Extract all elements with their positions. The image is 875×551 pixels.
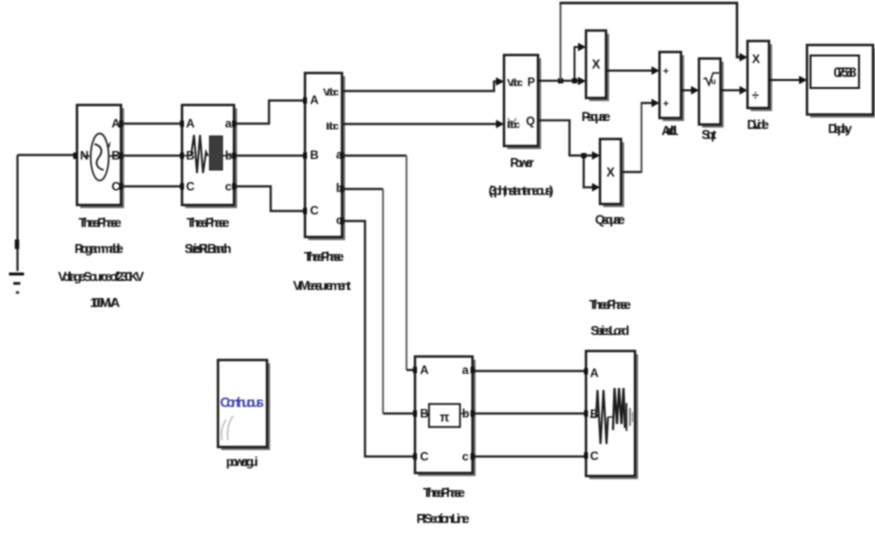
wire Q-square out up to Add1 lower input [621, 99, 660, 173]
svg-text:PI Section Line: PI Section Line [417, 511, 470, 526]
wire VI Vabc to Power Vabc [342, 82, 497, 92]
svg-text:Divide: Divide [747, 117, 769, 132]
svg-text:Add1: Add1 [662, 123, 679, 138]
svg-text:a: a [462, 363, 469, 377]
svg-text:Display: Display [828, 121, 853, 136]
wire PI c to Load C [475, 455, 585, 457]
power block U2: Power (3ph, Instantaneous) [504, 55, 540, 148]
wire VI a down to PI line A [342, 155, 407, 157]
powergui block [218, 360, 269, 449]
node J3 on Q wire [581, 153, 586, 158]
svg-text:π: π [440, 411, 450, 425]
svg-text:Three-Phase: Three-Phase [304, 249, 344, 264]
wire Divide to Display [769, 76, 807, 85]
svg-text:VI Measurement: VI Measurement [293, 278, 352, 293]
svg-text:A: A [310, 93, 319, 107]
multiplier U3: P-square [586, 31, 608, 100]
wire PI a to Load A [475, 370, 585, 372]
svg-text:Q-square: Q-square [595, 212, 625, 227]
svg-text:c: c [462, 450, 469, 464]
label: power block name [489, 155, 554, 198]
svg-text:Iabc: Iabc [326, 121, 339, 133]
voltage source U1: Three-Phase Programmable Voltage Source [73, 105, 123, 207]
wire P-square out to Add1 [606, 66, 660, 75]
svg-text:A: A [186, 117, 195, 131]
svg-text:Sqrt: Sqrt [702, 127, 718, 142]
adder U5: Add1 [660, 52, 683, 120]
label: RL branch name [185, 215, 232, 256]
svg-text:0.7538: 0.7538 [834, 65, 857, 80]
label: source name [58, 215, 144, 310]
svg-text:+: + [663, 67, 669, 78]
label: PI section line name [417, 485, 470, 526]
PI section line block Z2: Three-Phase PI Section Line [413, 357, 475, 475]
svg-text:Series Load: Series Load [591, 323, 630, 338]
wire source A to RL A [121, 122, 182, 124]
svg-text:÷: ÷ [752, 89, 759, 103]
wire RL a to VI A [236, 101, 303, 124]
wire RL c to VI C [236, 186, 303, 211]
svg-text:+: + [663, 99, 669, 110]
wire source B to RL B [121, 155, 182, 157]
svg-text:A: A [420, 363, 429, 377]
svg-text:C: C [420, 450, 429, 464]
RL branch Z1: Three-Phase Series RL Branch [180, 105, 236, 207]
svg-text:C: C [590, 449, 599, 463]
svg-text:Three-Phase: Three-Phase [589, 297, 631, 312]
svg-text:N: N [80, 149, 89, 163]
svg-text:powergui: powergui [226, 454, 258, 469]
wire VI Iabc to Power Iabc [342, 123, 497, 125]
svg-text:Three-Phase: Three-Phase [423, 485, 465, 500]
svg-text:Vabc: Vabc [323, 87, 339, 99]
measurement block M1: Three-Phase V-I Measurement [303, 73, 344, 239]
svg-text:B: B [310, 148, 319, 162]
svg-text:A: A [590, 366, 599, 380]
svg-text:c: c [225, 180, 232, 194]
svg-text:Vabc: Vabc [507, 77, 523, 89]
svg-text:(3ph, Instantaneous): (3ph, Instantaneous) [489, 183, 554, 198]
svg-text:P-square: P-square [582, 109, 611, 124]
svg-text:C: C [186, 180, 195, 194]
wire ground to source N [18, 154, 75, 156]
wire VI b down to PI line B [342, 188, 383, 190]
svg-text:Three-Phase: Three-Phase [187, 215, 230, 230]
wire PI b to Load B [475, 412, 585, 414]
svg-text:Continuous: Continuous [220, 394, 264, 410]
sqrt block U6: Sqrt [699, 59, 722, 127]
svg-text:Series RL Branch: Series RL Branch [185, 241, 232, 256]
wire RL b to VI B [236, 155, 303, 157]
wire Sqrt to Divide [721, 86, 748, 95]
node J1 on P wire [558, 78, 563, 83]
svg-text:X: X [592, 58, 601, 72]
svg-text:100MVA: 100MVA [90, 295, 121, 310]
label: load name [589, 297, 631, 338]
wire P branch up over top to Divide X input [560, 3, 748, 81]
wire VI c down to PI line C [342, 221, 415, 457]
svg-text:Programmable: Programmable [75, 241, 124, 256]
svg-text:u: u [711, 77, 716, 86]
svg-text:C: C [310, 204, 319, 218]
divide block U7: Divide [748, 41, 771, 110]
node J2 on P wire [572, 78, 577, 83]
ground [9, 155, 24, 293]
wire Power Q to Q-square with branch [538, 120, 600, 191]
wire source C to RL C [121, 185, 182, 187]
wire Add1 to Sqrt [681, 86, 699, 95]
svg-text:X: X [752, 52, 760, 66]
wire Power P to P-square with branches [538, 43, 586, 86]
svg-text:Three-Phase: Three-Phase [79, 215, 122, 230]
label: VI measurement name [293, 249, 352, 293]
svg-text:P: P [527, 77, 535, 89]
svg-text:Q: Q [526, 116, 535, 128]
svg-text:X: X [606, 166, 615, 180]
svg-text:Voltage Source of 230KV: Voltage Source of 230KV [58, 269, 144, 284]
display block U8: Display [807, 45, 875, 116]
load block Z3: Three-Phase Series Load [584, 351, 637, 478]
svg-text:Power: Power [510, 155, 534, 170]
svg-text:a: a [225, 117, 232, 131]
multiplier U4: Q-square [600, 139, 623, 206]
